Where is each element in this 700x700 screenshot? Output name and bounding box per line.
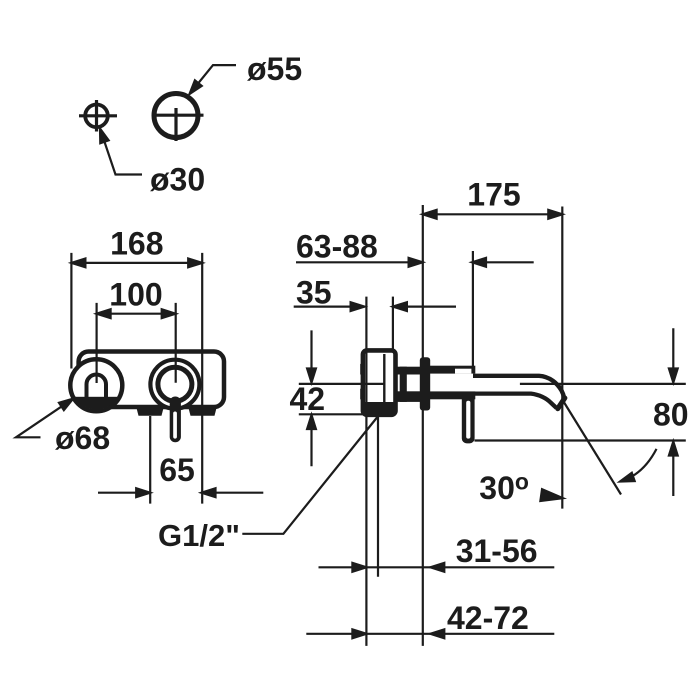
- aerator level line: [299, 383, 686, 385]
- dim 35: [294, 306, 456, 308]
- spout escutcheon circle ø68: [70, 359, 122, 411]
- water stream line: [564, 402, 622, 495]
- dim 42: [310, 330, 312, 466]
- hole circle small (ø30): [85, 105, 108, 128]
- bowl fill bottom of circle: [70, 397, 123, 411]
- leader G1/2: [242, 413, 381, 534]
- svg-text:G1/2": G1/2": [158, 518, 240, 553]
- cartridge nut: [400, 367, 407, 402]
- svg-text:175: 175: [467, 177, 520, 213]
- handle escutcheon outer ring: [150, 360, 199, 409]
- dim 31-56: [319, 566, 555, 568]
- spout base bottom: [430, 391, 475, 399]
- svg-text:168: 168: [110, 226, 163, 262]
- reference vertical C (flange front): [422, 205, 424, 646]
- leader ø30: [100, 129, 142, 175]
- svg-text:65: 65: [159, 452, 195, 488]
- svg-text:ø55: ø55: [247, 51, 302, 87]
- handle stem slot: [173, 412, 177, 439]
- lower body level line: [299, 413, 363, 415]
- in-wall body: [363, 350, 396, 414]
- dim 42-72: [306, 633, 554, 635]
- svg-text:80: 80: [653, 397, 689, 433]
- reference vertical A (wall line): [365, 297, 367, 646]
- svg-text:100: 100: [109, 277, 162, 313]
- foot left: [136, 406, 164, 416]
- dim 168: [71, 253, 202, 504]
- spout end face: [558, 398, 565, 409]
- leader ø68: [16, 399, 73, 438]
- lever handle side: [462, 393, 475, 443]
- dim 100: [97, 303, 176, 383]
- reference vertical (spout tip): [561, 207, 563, 509]
- wall plate: [79, 352, 224, 408]
- reference vertical (63-88 right): [472, 251, 474, 368]
- dim 175: [423, 213, 563, 215]
- reference vertical (35 right): [392, 297, 394, 351]
- hole circle large (ø55): [154, 94, 198, 138]
- handle ring inner: [158, 367, 192, 401]
- body bottom solid: [363, 402, 396, 415]
- svg-text:42-72: 42-72: [447, 600, 529, 636]
- angle arc: [620, 449, 657, 482]
- handle stem front: [170, 397, 181, 443]
- body clips: [360, 364, 363, 375]
- svg-text:42: 42: [290, 381, 326, 417]
- spout top line: [473, 376, 564, 398]
- spout bottom line: [430, 394, 556, 408]
- body inner lines: [383, 354, 385, 411]
- spout arch front: [87, 375, 107, 405]
- svg-text:63-88: 63-88: [296, 229, 378, 265]
- crosshair large: [157, 108, 204, 141]
- leader 30deg arrow: [541, 490, 563, 504]
- sleeve bottom band: [394, 391, 422, 402]
- dim 63-88: [296, 261, 534, 263]
- svg-text:ø30: ø30: [150, 162, 205, 198]
- leader ø55: [190, 65, 237, 94]
- foot right: [188, 406, 217, 416]
- dim 65: [98, 416, 263, 504]
- svg-text:ø68: ø68: [55, 420, 110, 456]
- handle tip level line: [475, 439, 686, 441]
- svg-text:31-56: 31-56: [456, 533, 538, 569]
- sleeve top band: [394, 367, 422, 375]
- spout base band top: [430, 366, 475, 374]
- crosshair small: [79, 100, 117, 132]
- reference vertical B: [377, 415, 379, 577]
- dim 80: [672, 328, 674, 496]
- wall escutcheon flange: [420, 357, 430, 410]
- svg-text:35: 35: [296, 275, 332, 311]
